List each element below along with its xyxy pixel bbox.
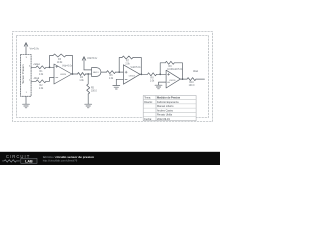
wire sensor pin2 to R2 xyxy=(31,80,36,82)
wire node down to R5 xyxy=(87,74,89,84)
resistor R5 xyxy=(87,84,90,94)
svg-text:fabricio / circuito sensor de: fabricio / circuito sensor de presion xyxy=(43,155,94,159)
svg-text:LM324: LM324 xyxy=(169,80,176,82)
svg-text:Sensor Presion: Sensor Presion xyxy=(21,64,25,84)
svg-text:2012-09-19: 2012-09-19 xyxy=(157,118,170,121)
footer bar xyxy=(0,152,220,165)
node junction xyxy=(49,66,51,68)
label R7 2.0k xyxy=(125,61,130,66)
resistor R4 xyxy=(78,73,86,76)
node OA2 output xyxy=(140,73,142,75)
ground xyxy=(155,85,162,89)
svg-text:http://circuitlab.com/c6swb76: http://circuitlab.com/c6swb76 xyxy=(43,159,78,163)
wire R4 to gate input B xyxy=(86,73,92,75)
svg-text:Vdd=5.0v: Vdd=5.0v xyxy=(62,65,73,68)
supply arrow VS1 xyxy=(24,43,28,55)
svg-text:Fabricio Esperanza: Fabricio Esperanza xyxy=(157,101,179,104)
inner dashed frame xyxy=(17,36,209,118)
svg-text:Vdd=5.0v: Vdd=5.0v xyxy=(87,57,98,60)
CircuitLab logo xyxy=(2,154,37,164)
label R8 1.0k xyxy=(150,77,155,82)
svg-text:LM324: LM324 xyxy=(60,74,67,76)
node junction xyxy=(87,73,89,75)
outer dashed frame xyxy=(13,32,213,122)
label R9 10.0k xyxy=(167,66,173,71)
label R5 100.0 xyxy=(91,87,97,92)
label R6 1.0k xyxy=(109,75,114,80)
resistor R3 xyxy=(53,54,66,57)
svg-text:LM324: LM324 xyxy=(129,75,136,77)
wire R1 to op-amp OA1 inverting input xyxy=(46,66,54,68)
svg-text:Tema:: Tema: xyxy=(144,97,151,100)
svg-text:AND1: AND1 xyxy=(93,71,99,74)
svg-text:Diseño:: Diseño: xyxy=(144,101,153,104)
wire R10 to output terminal xyxy=(196,78,205,80)
wire OA2 non-inverting input to ground xyxy=(116,79,123,85)
wire feedback to output xyxy=(66,56,73,75)
resistor R10 xyxy=(187,78,196,81)
wire OA3 output to R10 xyxy=(180,78,187,80)
wire R5 to ground xyxy=(87,94,89,104)
wire feedback riser OA2 xyxy=(119,58,122,73)
svg-text:10.0k: 10.0k xyxy=(57,62,63,64)
svg-text:-Vout: -Vout xyxy=(33,77,39,80)
node junction xyxy=(159,73,161,75)
title block xyxy=(143,96,196,121)
svg-text:+Vout: +Vout xyxy=(33,63,40,66)
wire R8 to op-amp OA3 inverting input xyxy=(157,73,167,75)
node OA3 output xyxy=(182,78,184,80)
wire sensor pin1 to ground xyxy=(25,96,27,104)
supply arrow VDD2 xyxy=(82,57,86,70)
svg-text:LAB: LAB xyxy=(25,159,33,163)
label R1 1.0k xyxy=(39,71,44,76)
resistor R7 xyxy=(122,56,133,59)
wire OA3 non-inverting input to ground xyxy=(159,82,167,85)
svg-text:Medidor de Presion: Medidor de Presion xyxy=(157,97,181,100)
svg-text:Vs=5.0v: Vs=5.0v xyxy=(30,47,40,51)
svg-text:Renato Ubilla: Renato Ubilla xyxy=(157,114,173,117)
svg-text:CIRCUIT: CIRCUIT xyxy=(6,154,30,159)
AND gate AND1 xyxy=(92,68,101,77)
wire feedback to OA2 output xyxy=(133,58,141,75)
wire OA1 output to R4 xyxy=(72,73,78,75)
svg-text:Vdd=5.0v: Vdd=5.0v xyxy=(131,66,142,69)
resistor R9 xyxy=(165,61,174,64)
node output OA1 xyxy=(72,73,74,75)
label R10 100.0 xyxy=(189,82,195,87)
svg-text:R10: R10 xyxy=(189,82,194,84)
wire feedback riser left xyxy=(50,56,54,68)
wire arrow to gate input A xyxy=(84,69,92,71)
svg-text:Vdd=5.0v: Vdd=5.0v xyxy=(173,68,184,71)
label R4 1.0k xyxy=(79,77,84,82)
resistor R1 xyxy=(36,66,46,69)
svg-text:100.0: 100.0 xyxy=(189,85,195,87)
svg-text:Vout: Vout xyxy=(193,70,198,73)
wire R6 to op-amp OA2 inverting input xyxy=(116,71,124,73)
wire feedback to OA3 output xyxy=(174,63,182,79)
node junction xyxy=(118,71,120,73)
svg-text:Andres Castro: Andres Castro xyxy=(157,109,174,112)
wire sensor pin4 to R1 xyxy=(31,66,36,68)
ground xyxy=(85,104,92,108)
resistor R8 xyxy=(148,73,157,76)
op-amp OA2 xyxy=(123,65,140,84)
svg-text:100.0: 100.0 xyxy=(91,90,97,92)
wire feedback riser OA3 xyxy=(160,63,165,75)
svg-text:Manuel Liborio: Manuel Liborio xyxy=(157,105,174,108)
svg-text:Fecha:: Fecha: xyxy=(144,118,152,121)
pressure sensor SENS1 (dashed box) xyxy=(21,55,32,97)
op-amp OA3 xyxy=(166,70,180,88)
ground xyxy=(23,104,30,108)
label R2 1.0k xyxy=(39,85,44,90)
resistor R2 xyxy=(36,80,46,83)
resistor R6 xyxy=(107,71,116,74)
label R3 10.0k xyxy=(57,59,63,64)
wire OA2 output to R8 xyxy=(140,73,148,75)
op-amp OA1 xyxy=(54,64,72,84)
ground xyxy=(113,85,120,89)
wire R2 to op-amp OA1 non-inverting input xyxy=(46,78,54,82)
wire gate output to R6 xyxy=(101,71,107,73)
